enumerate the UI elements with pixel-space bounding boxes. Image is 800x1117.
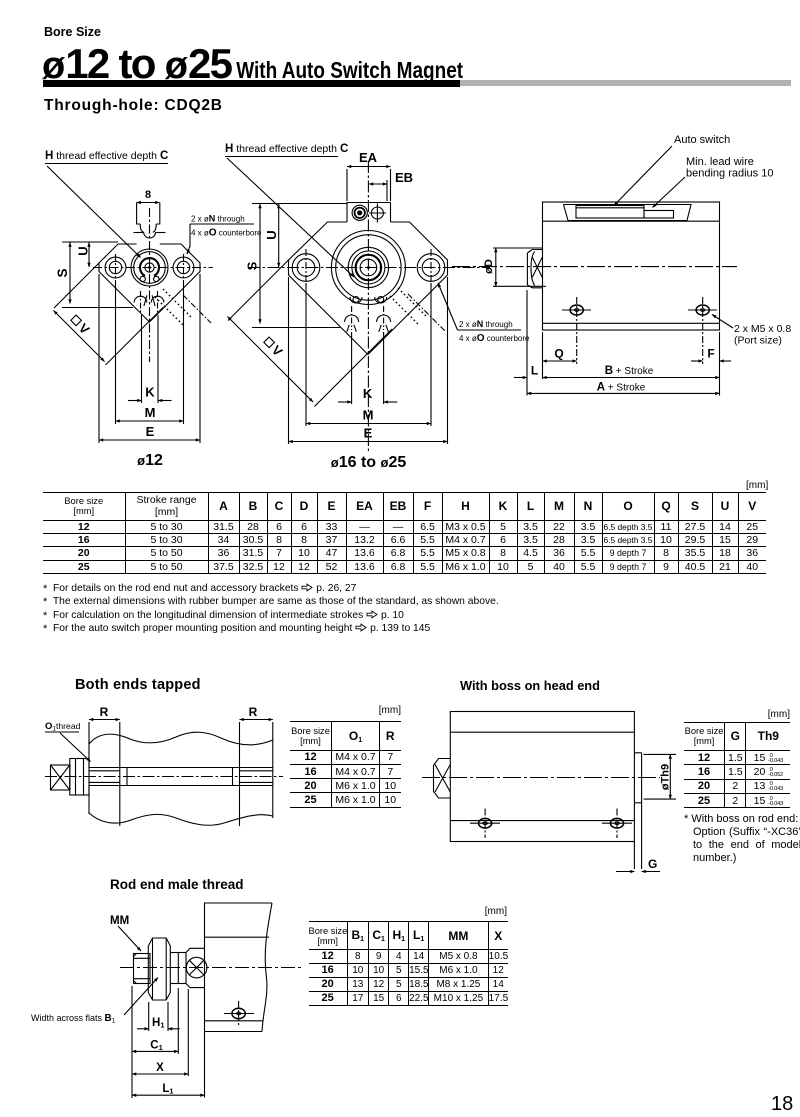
counterbore dashed marks: [390, 288, 446, 332]
E dimension: [99, 274, 200, 443]
centerline vertical: [367, 161, 369, 452]
rod head: [51, 765, 70, 790]
svg-text:8: 8: [145, 189, 151, 201]
H1 dimension: [137, 1002, 180, 1031]
notch thread hole right: [369, 204, 386, 223]
label Min lead wire bending radius 10: [653, 156, 774, 208]
footnotes: [43, 582, 499, 636]
port hole left: [470, 809, 500, 839]
thread stub: [134, 954, 151, 984]
G dimension: [616, 857, 660, 872]
svg-text:R: R: [100, 705, 109, 719]
K dimension: [128, 315, 172, 403]
E dimension: [289, 277, 448, 444]
U dimension: [264, 204, 279, 267]
EA dimension: [347, 150, 391, 201]
leader H thread effective depth C: [225, 143, 354, 277]
switch rail: [564, 205, 692, 221]
svg-text:MM: MM: [110, 915, 129, 927]
body top wavy edge: [89, 732, 273, 744]
boss on head end: [634, 753, 641, 869]
svg-text:L: L: [531, 364, 538, 378]
svg-text:F: F: [707, 347, 714, 361]
svg-text:R: R: [249, 705, 258, 719]
cylinder body with break: [205, 903, 273, 1032]
V dimension: [228, 260, 393, 407]
rod end nut profile: [434, 759, 451, 799]
K dimension: [338, 332, 397, 404]
svg-text:C1: C1: [150, 1040, 162, 1053]
F dimension: [691, 297, 731, 364]
S dimension: [55, 242, 133, 308]
cylinder body: [450, 712, 634, 842]
label 2xN through 4xO counterbore drawing2: [438, 283, 530, 344]
port hole: [224, 1001, 254, 1026]
svg-text:O1thread: O1thread: [45, 721, 81, 733]
bottom thread scallops: [134, 291, 164, 314]
svg-text:E: E: [364, 426, 373, 441]
V dimension: [54, 263, 164, 365]
svg-text:ø16 to ø25: ø16 to ø25: [331, 454, 407, 471]
MM label: [110, 915, 141, 951]
leader H thread effective depth C: [45, 150, 168, 258]
C1 dimension: [132, 988, 178, 1054]
svg-text:A + Stroke: A + Stroke: [597, 381, 646, 393]
svg-text:X: X: [156, 1062, 164, 1074]
svg-text:G: G: [648, 857, 657, 871]
centerline: [452, 266, 737, 268]
svg-text:Auto switch: Auto switch: [674, 134, 730, 146]
svg-text:U: U: [76, 246, 91, 255]
body left edge: [88, 741, 90, 768]
counterbore dashed marks: [155, 289, 211, 325]
centerline: [422, 777, 660, 779]
mounting hole left: [105, 254, 126, 281]
label Auto switch: [614, 134, 730, 206]
svg-text:øTh9: øTh9: [660, 764, 672, 790]
rod end nut profile: [527, 250, 542, 288]
port hole left: [562, 305, 591, 315]
body square V rotated 45 with chamfers: [99, 244, 200, 322]
mounting hole right: [417, 249, 445, 286]
rod cross symbol: [186, 957, 207, 978]
svg-text:K: K: [363, 386, 373, 401]
port hole right: [602, 809, 632, 839]
Q dimension: [543, 297, 577, 364]
svg-text:4 x øO counterbore: 4 x øO counterbore: [191, 228, 262, 239]
svg-text:2 x M5 x 0.8: 2 x M5 x 0.8: [734, 323, 791, 335]
port hole right: [688, 305, 717, 315]
bottom thread scallops: [345, 306, 391, 332]
bore circles: [331, 231, 405, 305]
S dimension: [245, 204, 348, 328]
bore circles: [131, 249, 168, 286]
L dimension: [514, 290, 543, 396]
svg-text:4 x øO counterbore: 4 x øO counterbore: [459, 333, 530, 344]
centerline: [45, 776, 283, 778]
svg-text:Q: Q: [554, 347, 563, 361]
EB dimension: [369, 170, 413, 201]
small holes with scallops: [350, 297, 387, 304]
top notch block: [134, 203, 166, 239]
centerline horizontal: [248, 267, 490, 269]
dimension 8 top notch width: [137, 189, 160, 203]
svg-text:(Port size): (Port size): [734, 335, 782, 347]
body bottom wavy edge: [89, 813, 273, 825]
svg-text:Min. lead wire: Min. lead wire: [686, 156, 754, 168]
width across flats label: [31, 978, 158, 1025]
page number: [771, 1093, 793, 1116]
mounting hole right: [173, 254, 194, 281]
svg-text:Width across flats B1: Width across flats B1: [31, 1013, 116, 1025]
A + Stroke dimension: [527, 381, 720, 393]
cylinder body: [543, 202, 720, 330]
M dimension: [116, 281, 184, 424]
svg-text:K: K: [145, 385, 155, 400]
svg-text:S: S: [55, 268, 70, 277]
auto switch body: [576, 206, 674, 219]
L1 dimension: [132, 1032, 205, 1098]
centerline: [120, 967, 302, 969]
svg-text:L1: L1: [162, 1083, 173, 1096]
svg-text:bending radius 10: bending radius 10: [686, 168, 773, 180]
X dimension: [132, 989, 188, 1076]
svg-text:E: E: [146, 424, 155, 439]
rod between nut and collar: [170, 953, 186, 984]
label 2xN through 4xO counterbore drawing1: [187, 214, 262, 255]
nut: [148, 938, 170, 1000]
svg-text:H thread effective depth C: H thread effective depth C: [225, 143, 348, 155]
svg-text:B + Stroke: B + Stroke: [605, 365, 654, 377]
piston rod: [89, 768, 273, 786]
svg-text:S: S: [245, 261, 260, 270]
label 2 x M5 x 0.8 Port size: [712, 315, 791, 347]
oD dimension: [483, 248, 546, 286]
svg-text:M: M: [363, 408, 374, 423]
svg-text:2 x øN through: 2 x øN through: [191, 214, 245, 224]
M dimension: [306, 283, 431, 426]
centerline vertical: [149, 208, 151, 362]
centerline horizontal: [93, 267, 213, 269]
O1 thread label: [45, 721, 91, 762]
svg-text:ø12: ø12: [137, 452, 163, 469]
body octagon: [289, 222, 448, 355]
svg-text:U: U: [264, 230, 279, 239]
notch thread hole filled: [352, 205, 367, 220]
mounting hole left: [292, 249, 320, 286]
nut: [70, 759, 89, 796]
U dimension: [76, 243, 91, 268]
R dimension right: [240, 705, 273, 826]
svg-text:2 x øN through: 2 x øN through: [459, 319, 513, 329]
collar: [186, 948, 205, 987]
notch block: [347, 203, 391, 223]
svg-text:H1: H1: [152, 1017, 164, 1030]
common left extension: [131, 986, 133, 1098]
svg-text:M: M: [145, 405, 156, 420]
svg-text:H thread effective depth C: H thread effective depth C: [45, 150, 168, 162]
oTh9 dimension: [644, 754, 676, 799]
svg-text:EB: EB: [395, 170, 413, 185]
R dimension left: [89, 705, 120, 826]
B + Stroke dimension: [543, 332, 720, 396]
